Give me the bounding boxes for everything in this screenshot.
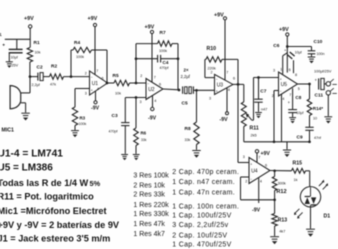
potentiometer R11 2k5	[241, 102, 246, 127]
power +9V terminal (U4)	[255, 150, 258, 153]
svg-text:47nf: 47nf	[314, 136, 321, 140]
wire U2 pin3 left	[125, 97, 146, 99]
svg-text:10µf: 10µf	[296, 111, 303, 115]
ground (J1)	[324, 116, 332, 118]
svg-text:2k5: 2k5	[251, 134, 257, 138]
svg-text:1 Res 330k: 1 Res 330k	[133, 211, 169, 218]
node U3 out junction	[237, 83, 240, 86]
svg-text:C11: C11	[315, 93, 324, 99]
resistor R8 33k	[194, 122, 199, 145]
pin 6 stub U5 (V+)	[286, 47, 288, 73]
svg-text:−: −	[91, 76, 93, 80]
wire C11 to jack	[324, 83, 326, 85]
svg-text:4: 4	[228, 88, 230, 92]
svg-text:100k: 100k	[79, 122, 87, 126]
svg-text:4: 4	[97, 87, 99, 91]
wire R13 to ground	[274, 226, 276, 236]
pin 7 stub U1	[94, 27, 96, 75]
svg-text:8: 8	[295, 73, 297, 77]
svg-text:C10: C10	[314, 39, 323, 45]
svg-text:n47: n47	[261, 108, 267, 112]
svg-text:470pf: 470pf	[109, 130, 118, 134]
wire R14 drop	[309, 84, 311, 99]
node +9V junction to C10	[286, 45, 289, 48]
svg-text:+: +	[2, 44, 5, 49]
node U4 output junction	[273, 169, 276, 172]
ground (C8)	[289, 117, 296, 119]
op-amp U2	[146, 79, 163, 100]
svg-text:2: 2	[211, 71, 213, 75]
op-amp U3	[215, 74, 234, 94]
wire R15 to D1	[306, 170, 310, 172]
svg-text:2: 2	[85, 72, 87, 76]
svg-text:4k7: 4k7	[279, 230, 285, 234]
node C5 right	[195, 89, 198, 92]
svg-text:U3: U3	[217, 83, 224, 89]
resistor R7 100k	[136, 43, 158, 45]
svg-text:3: 3	[243, 155, 245, 159]
svg-text:U5: U5	[281, 82, 288, 88]
pin 4 stub U2	[152, 96, 154, 108]
svg-text:2×: 2×	[184, 68, 189, 73]
wire mic bottom lead	[21, 102, 26, 104]
wire wiper to U5 pin 3	[252, 119, 254, 121]
node feedback junction R4	[70, 75, 73, 78]
svg-text:MIC1: MIC1	[2, 128, 15, 134]
pin 7 stub U5	[292, 88, 294, 109]
wire U1 pin3 to R3	[75, 88, 90, 90]
svg-text:+: +	[216, 90, 218, 94]
node U2 input junction	[135, 82, 138, 85]
svg-text:2: 2	[245, 180, 247, 184]
svg-text:-9V: -9V	[148, 115, 157, 121]
svg-text:R6: R6	[141, 131, 147, 136]
op-amp U1	[90, 71, 108, 95]
resistor R12 330k	[272, 177, 277, 191]
svg-text:R11: R11	[250, 126, 259, 132]
svg-text:1 Cap. 100uf/25V: 1 Cap. 100uf/25V	[172, 213, 231, 220]
node mic/C2 junction	[29, 75, 32, 78]
svg-text:4: 4	[282, 97, 284, 101]
wire U1 out to R5	[107, 82, 114, 84]
power -9V terminal (U2)	[151, 107, 154, 110]
svg-text:10µf: 10µf	[11, 56, 19, 60]
wire C1 branch	[5, 38, 30, 40]
svg-text:220k: 220k	[208, 66, 216, 70]
svg-text:+9V y -9V = 2 baterías de 9V: +9V y -9V = 2 baterías de 9V	[0, 220, 120, 230]
wire R12 bottom	[274, 191, 276, 200]
resistor R4 100k	[71, 49, 73, 51]
svg-text:C6: C6	[273, 43, 279, 49]
power -9V terminal (U3)	[226, 112, 229, 115]
capacitor C5 2x 2,2µf	[182, 86, 184, 93]
ground (C10)	[308, 56, 315, 58]
svg-text:1 Res 220k: 1 Res 220k	[133, 202, 169, 209]
svg-text:10µf: 10µf	[295, 51, 302, 55]
svg-text:1: 1	[280, 68, 282, 72]
svg-text:+: +	[91, 89, 93, 93]
svg-text:+: +	[250, 163, 252, 167]
svg-text:3 Res 100k: 3 Res 100k	[133, 172, 169, 179]
capacitor C3 470pf	[121, 122, 129, 124]
pin 7 stub U3	[224, 20, 226, 80]
wire R6 drop	[135, 98, 137, 129]
svg-text:U2: U2	[148, 87, 155, 93]
svg-text:C2: C2	[37, 65, 43, 71]
op-amp U5 LM386	[279, 72, 298, 96]
svg-text:300k: 300k	[278, 182, 286, 186]
wire C7 drop	[258, 78, 260, 100]
svg-text:3: 3	[209, 97, 211, 101]
node U5 output junction	[308, 83, 311, 86]
svg-text:3: 3	[140, 100, 142, 104]
wire R13 top	[274, 200, 276, 214]
resistor R6 33k	[134, 128, 139, 146]
svg-text:+: +	[147, 96, 149, 100]
ground (C1)	[6, 61, 13, 63]
svg-text:47k: 47k	[50, 83, 56, 87]
svg-text:C8: C8	[295, 95, 301, 100]
svg-text:1 Res 47k: 1 Res 47k	[133, 221, 165, 228]
capacitor C1 470µf/25V	[9, 48, 23, 50]
wire R7 right down	[172, 43, 178, 45]
svg-text:D1: D1	[324, 214, 331, 220]
svg-text:10k: 10k	[35, 51, 41, 55]
resistor R13 4k7	[272, 214, 277, 227]
wire U2 output	[163, 88, 179, 91]
svg-text:4: 4	[154, 99, 156, 103]
svg-text:C9: C9	[297, 135, 303, 141]
node U1 output	[106, 82, 109, 85]
svg-text:7: 7	[96, 69, 98, 73]
resistor R2 47k	[50, 74, 64, 79]
wire R4 right to output	[92, 49, 108, 51]
svg-text:+9V: +9V	[214, 13, 224, 19]
svg-text:+9V: +9V	[145, 25, 155, 31]
connector J1 ring	[326, 91, 330, 95]
svg-text:33k: 33k	[141, 138, 147, 142]
resistor R5 10k	[114, 80, 130, 85]
node C4 left	[135, 57, 138, 60]
svg-text:100n: 100n	[317, 52, 325, 56]
svg-text:6: 6	[265, 164, 267, 168]
microphone MIC1	[10, 86, 21, 109]
wire U4 feedback	[241, 176, 250, 178]
wire C8 to ground	[292, 113, 294, 117]
svg-text:2,2µf: 2,2µf	[181, 74, 191, 79]
svg-text:R15: R15	[293, 161, 303, 167]
wire R1 bottom to input node	[29, 62, 31, 77]
svg-text:1 Res 4k7: 1 Res 4k7	[133, 231, 165, 238]
svg-text:Todas las R de 1/4 W: Todas las R de 1/4 W	[0, 178, 89, 188]
LED arrows (emission)	[319, 181, 328, 189]
svg-text:1 Cap. 470uf/25V: 1 Cap. 470uf/25V	[172, 241, 231, 248]
svg-text:100k: 100k	[159, 49, 167, 53]
svg-text:−: −	[250, 178, 252, 182]
node C5 left	[178, 89, 181, 92]
svg-text:Mic1 =Micrófono Electret: Mic1 =Micrófono Electret	[0, 206, 107, 216]
ground (R13)	[270, 236, 279, 238]
wire R12 top	[274, 171, 276, 177]
svg-text:-9V: -9V	[252, 208, 261, 214]
node rail pin2	[273, 140, 276, 143]
node rail C9	[308, 140, 311, 143]
wire U3 output	[233, 83, 244, 85]
svg-text:+: +	[280, 78, 282, 82]
capacitor C8 10µf	[288, 109, 297, 111]
ground (C7)	[255, 112, 262, 114]
svg-text:6: 6	[289, 68, 291, 72]
svg-text:U1-4 = LM741: U1-4 = LM741	[0, 149, 63, 160]
LED D1 (bicolor)	[300, 187, 320, 207]
svg-text:U5 = LM386: U5 = LM386	[0, 162, 53, 173]
svg-text:R11 = Pot. logaritmico: R11 = Pot. logaritmico	[0, 192, 94, 202]
wire C3 to ground	[124, 126, 126, 154]
svg-text:2 Cap. 10uf/25V: 2 Cap. 10uf/25V	[172, 233, 227, 240]
svg-text:-9V: -9V	[220, 117, 229, 123]
svg-text:R10: R10	[207, 46, 217, 52]
ground (C3)	[121, 154, 128, 156]
wire rail ground stub	[286, 142, 288, 150]
svg-text:C3: C3	[112, 113, 118, 119]
svg-text:10: 10	[313, 117, 317, 121]
resistor R14 10	[307, 99, 312, 116]
capacitor C10 100n	[308, 50, 316, 52]
svg-text:+9V: +9V	[261, 151, 271, 157]
svg-text:100µf/25V: 100µf/25V	[314, 70, 332, 74]
svg-text:R1: R1	[34, 40, 40, 46]
svg-text:470pf: 470pf	[160, 66, 169, 70]
op-amp U4	[249, 158, 270, 184]
node C7 tap	[257, 76, 260, 79]
wire U4 output	[270, 170, 292, 172]
pin 4 stub U4	[258, 178, 260, 204]
wire R6 to ground	[135, 146, 137, 154]
wire to C10	[287, 46, 311, 48]
svg-text:−: −	[216, 78, 218, 82]
svg-text:−: −	[147, 82, 149, 86]
wire to R11	[243, 84, 245, 102]
resistor R15 1k	[292, 168, 306, 173]
svg-text:R12: R12	[276, 189, 286, 195]
svg-text:R7: R7	[160, 30, 166, 36]
ground (R8)	[192, 150, 201, 152]
svg-text:R13: R13	[278, 218, 288, 224]
svg-text:1 Cap. 100n ceram.: 1 Cap. 100n ceram.	[172, 203, 239, 210]
capacitor C2 2,2µf	[30, 76, 38, 78]
svg-text:-9V: -9V	[91, 106, 100, 112]
svg-text:5: 5	[298, 87, 300, 91]
pin 7 stub U2	[151, 34, 153, 82]
svg-text:J1 = Jack estereo 3'5 m/m: J1 = Jack estereo 3'5 m/m	[0, 234, 110, 244]
connector J1 tip	[326, 82, 330, 86]
svg-text:1k: 1k	[294, 178, 298, 182]
wire R11 bottom to ground rail	[243, 127, 245, 142]
svg-text:25V: 25V	[12, 64, 19, 68]
capacitor C6 10µf (pins 1-8)	[282, 56, 284, 74]
svg-text:R8: R8	[185, 126, 191, 132]
svg-text:3: 3	[85, 92, 87, 96]
svg-text:R4: R4	[74, 40, 80, 46]
svg-text:3 Cap. 2,2uf/25v: 3 Cap. 2,2uf/25v	[172, 222, 228, 229]
svg-text:2 Res 10k: 2 Res 10k	[133, 183, 165, 190]
capacitor C4 470pf	[136, 58, 158, 60]
wire U3 out to U4 pin 3	[237, 84, 239, 162]
wire R10 right down	[222, 58, 238, 60]
wire U5 pin2 to rail	[274, 90, 279, 92]
wire feedback up to R4	[70, 50, 72, 77]
wire C5 to U3 pin 3	[193, 89, 214, 91]
svg-text:R2: R2	[51, 64, 57, 70]
pin 8 stub U5	[293, 63, 295, 74]
wiper arrow R11	[247, 115, 252, 121]
wire R8 to ground	[196, 145, 198, 150]
wire R3 to ground	[74, 126, 76, 131]
resistor R10 220k	[205, 58, 206, 60]
wire R8 drop	[196, 90, 198, 122]
svg-text:C4: C4	[163, 60, 169, 65]
svg-text:C5: C5	[182, 101, 188, 107]
svg-text:6: 6	[233, 77, 235, 81]
wire feedback up to R7/C4	[135, 44, 137, 83]
power -9V terminal (U1)	[94, 101, 97, 104]
wire D1 cathode to ground	[310, 207, 312, 229]
wire C10 to ground	[311, 54, 313, 57]
svg-text:3: 3	[273, 69, 275, 73]
node R6 top	[135, 96, 138, 99]
svg-text:+9V: +9V	[24, 16, 34, 22]
wire R2 to U1 pin 2	[64, 76, 90, 78]
ground (D1)	[306, 228, 315, 230]
svg-text:R14*: R14*	[313, 106, 323, 111]
svg-text:C7: C7	[260, 89, 266, 95]
ground (R6)	[133, 154, 140, 156]
svg-text:U4: U4	[251, 169, 258, 175]
svg-text:33k: 33k	[185, 138, 191, 142]
svg-text:1 Cap. n47 ceram.: 1 Cap. n47 ceram.	[172, 179, 235, 186]
wire J1 to ground	[327, 95, 329, 116]
ground (MIC1)	[21, 112, 30, 114]
wire C2 to R2	[43, 76, 49, 78]
wire R5 to U2 pin 2	[130, 82, 147, 84]
svg-text:R3: R3	[80, 116, 86, 121]
resistor R1 10k	[27, 48, 32, 63]
pin 4 stub U5	[281, 94, 283, 142]
capacitor C7 n47	[254, 98, 262, 100]
wire +9V to R1 top	[29, 28, 31, 47]
svg-text:1 Cap. 47n ceram.: 1 Cap. 47n ceram.	[172, 189, 235, 196]
svg-text:10k: 10k	[115, 92, 121, 96]
svg-text:2 Res 33k: 2 Res 33k	[133, 192, 165, 199]
svg-text:7: 7	[226, 71, 228, 75]
svg-text:−: −	[280, 90, 282, 94]
wire R14 to C9	[309, 116, 311, 128]
wire C7 to ground	[258, 102, 260, 112]
wire C1 to ground	[8, 53, 10, 62]
svg-text:4: 4	[260, 180, 262, 184]
pin 4 stub U3	[226, 88, 228, 112]
svg-text:6: 6	[159, 83, 161, 87]
svg-text:R5: R5	[113, 73, 119, 79]
wire C3 drop	[124, 98, 126, 123]
svg-text:100k: 100k	[76, 55, 84, 59]
svg-text:2: 2	[140, 74, 142, 78]
svg-text:+9V: +9V	[88, 16, 98, 22]
svg-text:2 Cap. 470p ceram.: 2 Cap. 470p ceram.	[172, 169, 239, 176]
svg-text:6: 6	[102, 77, 104, 81]
wire U3 pin2 left	[205, 77, 215, 79]
ground (U5 rail)	[283, 149, 291, 151]
wire mic top lead	[21, 92, 30, 94]
ground (R3)	[71, 130, 79, 132]
svg-text:7: 7	[154, 76, 156, 80]
node feedback junction U4	[273, 198, 276, 201]
svg-text:5%: 5%	[90, 179, 101, 188]
pin 7 stub U4	[256, 153, 258, 162]
capacitor C9 47nf	[305, 126, 313, 128]
pin 4 stub U1	[95, 91, 97, 101]
wire ground rail	[244, 141, 310, 143]
svg-text:+9V: +9V	[279, 27, 289, 33]
wire U5 output	[298, 83, 310, 85]
wire C9 to rail	[309, 130, 311, 142]
svg-text:2,2µf: 2,2µf	[32, 83, 41, 87]
resistor R3 100k	[72, 107, 77, 126]
node C4 right	[177, 57, 180, 60]
svg-text:7: 7	[289, 93, 291, 97]
